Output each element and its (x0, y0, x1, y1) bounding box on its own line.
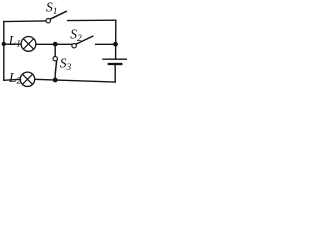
wire: lamp L1 to S2 (36, 43, 72, 45)
wire: top segment left of S1 (4, 20, 46, 23)
switch S3 (53, 57, 57, 73)
wire: right vertical upper (115, 20, 117, 58)
node A: left junction (2, 42, 6, 46)
wire: S2 to node C (96, 43, 116, 45)
svg-text:S3: S3 (60, 56, 72, 74)
lamp L2 (20, 72, 34, 86)
wire: right vertical lower (114, 65, 116, 82)
svg-text:L1: L1 (8, 33, 21, 50)
wire: left vertical (3, 22, 5, 81)
switch S1 (46, 11, 66, 23)
svg-text:S1: S1 (46, 0, 58, 17)
switch S2 (72, 36, 93, 48)
lamp L1 (21, 37, 36, 52)
wire: bottom from lamp L2 to corner (35, 79, 115, 82)
wire: S3 bottom stub to node D (54, 74, 56, 80)
wire: top segment right of S1 (68, 19, 116, 21)
node C: right junction (113, 42, 118, 47)
wire: bottom from corner to lamp L2 (4, 79, 21, 80)
switch S3 stub from node B (54, 44, 56, 56)
svg-text:S2: S2 (70, 27, 82, 45)
node D: S3 bottom junction (53, 78, 58, 83)
node B: S3 top junction (53, 42, 58, 47)
battery (103, 59, 126, 64)
svg-text:L2: L2 (8, 70, 22, 87)
wire: middle from node A to lamp L1 (4, 43, 21, 45)
